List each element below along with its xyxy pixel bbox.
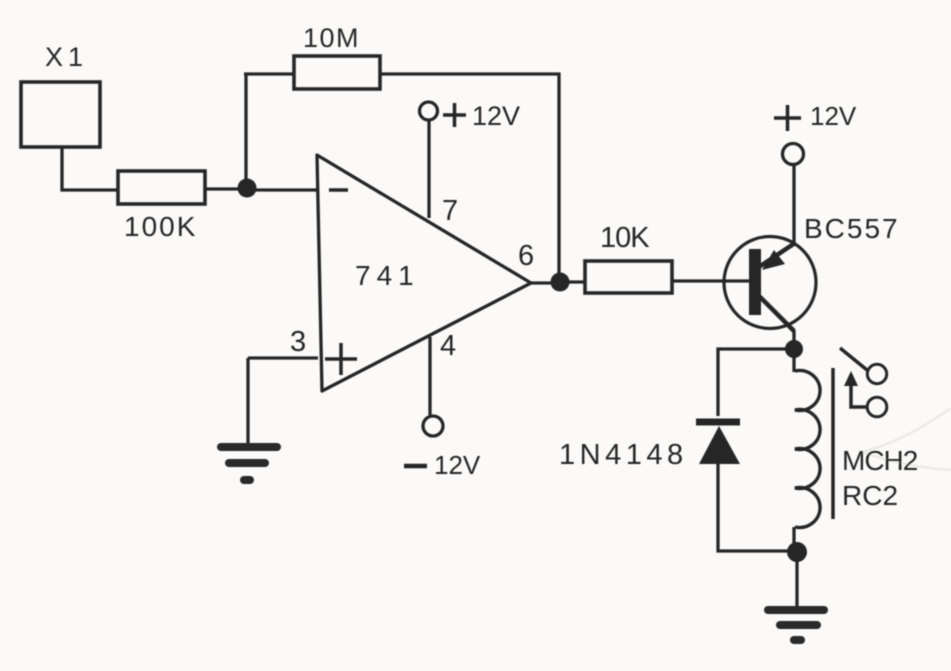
wire non-inverting input	[248, 358, 318, 444]
wire output to R3	[566, 280, 585, 283]
supply label 12V negative	[434, 450, 481, 480]
resistor R3 10K	[585, 261, 672, 293]
node output dot	[551, 273, 570, 292]
wire coil to node C	[792, 527, 795, 546]
wire node C to ground	[795, 560, 798, 608]
plus sign of +12V transistor	[774, 105, 801, 131]
transistor label BC557	[804, 213, 900, 244]
pin 3 label	[290, 326, 306, 358]
wire node B to coil	[792, 356, 795, 372]
plus sign of +12V op-amp	[443, 103, 466, 127]
switch arrow shaft	[851, 383, 866, 407]
ground right	[768, 610, 824, 640]
terminal circle -12V	[423, 416, 443, 436]
switch lever	[840, 348, 867, 370]
relay core bar	[831, 368, 835, 519]
node C junction dot	[787, 542, 807, 562]
wire node B to diode top	[718, 349, 794, 416]
transistor Q1 circle	[724, 237, 816, 329]
op-amp plus sign	[325, 343, 357, 375]
supply label 12V transistor	[810, 101, 857, 131]
diode label 1N4148	[559, 439, 688, 471]
op-amp U1 triangle	[317, 155, 531, 391]
wire diode bottom to node C	[718, 462, 790, 551]
wire crystal to R1	[62, 147, 118, 190]
svg-text:10M: 10M	[303, 23, 360, 53]
svg-text:4: 4	[440, 330, 456, 362]
minus sign of -12V	[404, 464, 427, 469]
node B junction dot	[785, 340, 803, 358]
svg-text:12V: 12V	[434, 450, 481, 480]
resistor R2 10M	[294, 56, 380, 89]
wire pin 7 to V+	[427, 121, 430, 218]
svg-text:1N4148: 1N4148	[559, 439, 688, 471]
wire output	[531, 281, 552, 284]
transistor Q1 emitter arrowhead	[762, 250, 785, 270]
svg-text:3: 3	[290, 326, 306, 358]
wire R3 to base	[672, 279, 749, 282]
wire emitter to +12V	[792, 165, 795, 243]
wire pin 4 to V-	[428, 337, 431, 415]
wire inverting input	[252, 188, 318, 191]
transistor Q1 base bar	[749, 249, 761, 315]
value label 10M	[303, 23, 360, 53]
pin 4 label	[440, 330, 456, 362]
crystal X1 label	[45, 42, 88, 72]
pin 6 label	[518, 240, 534, 272]
resistor R1 100K	[118, 171, 205, 204]
svg-text:MCH2: MCH2	[842, 445, 918, 476]
svg-text:BC557: BC557	[804, 213, 900, 244]
wire collector down to node B	[792, 330, 795, 344]
op-amp label 741	[355, 260, 420, 291]
svg-text:X1: X1	[45, 42, 88, 72]
terminal circle +12V op-amp	[420, 102, 438, 120]
svg-text:12V: 12V	[810, 101, 857, 131]
node A junction dot	[238, 179, 257, 198]
transistor Q1 collector lead	[759, 296, 794, 331]
svg-text:12V: 12V	[472, 101, 520, 131]
relay label MCH2	[842, 445, 918, 476]
relay coil RC2	[795, 371, 820, 528]
svg-text:10K: 10K	[600, 222, 650, 254]
wire node A up to feedback	[244, 74, 247, 186]
pin 7 label	[442, 195, 458, 227]
paper crease artifact	[862, 408, 951, 470]
switch upper contact circle	[867, 364, 886, 383]
svg-text:7: 7	[442, 195, 458, 227]
ground left	[221, 447, 277, 480]
wire feedback left segment	[244, 72, 294, 75]
svg-text:100K: 100K	[124, 211, 197, 242]
wire R1 to node A	[205, 187, 242, 190]
transistor Q1 emitter lead	[759, 243, 795, 267]
svg-text:RC2: RC2	[842, 480, 898, 511]
value label 100K	[124, 211, 197, 242]
svg-text:741: 741	[355, 260, 420, 291]
op-amp minus sign	[329, 188, 348, 192]
diode D1 cathode bar	[696, 419, 740, 426]
switch arrowhead	[844, 371, 858, 386]
terminal circle +12V transistor	[783, 144, 804, 165]
switch lower contact circle	[867, 397, 887, 417]
crystal X1 box	[21, 82, 100, 147]
relay label RC2	[842, 480, 898, 511]
wire feedback right segment down to output	[380, 74, 559, 282]
svg-text:6: 6	[518, 240, 534, 272]
value label 10K	[600, 222, 650, 254]
supply label 12V op-amp	[472, 101, 520, 131]
diode D1 anode triangle	[699, 426, 740, 464]
